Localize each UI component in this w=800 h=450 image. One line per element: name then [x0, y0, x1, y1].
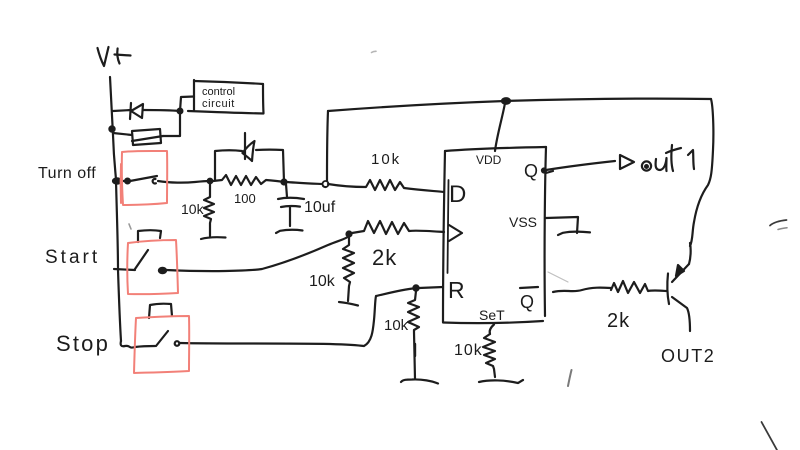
svg-text:VDD: VDD [476, 153, 502, 167]
svg-text:10k: 10k [371, 151, 401, 168]
svg-text:2k: 2k [372, 245, 397, 270]
svg-text:circuit: circuit [202, 98, 235, 110]
svg-text:10k: 10k [384, 317, 409, 334]
svg-text:R: R [448, 277, 465, 303]
svg-text:Stop: Stop [56, 331, 110, 356]
svg-text:10k: 10k [309, 273, 336, 290]
svg-text:D: D [449, 181, 466, 208]
svg-text:Start: Start [45, 247, 100, 268]
svg-text:Q: Q [524, 161, 538, 181]
svg-text:OUT2: OUT2 [661, 346, 715, 366]
svg-text:SeT: SeT [479, 307, 505, 323]
svg-text:VSS: VSS [509, 214, 537, 230]
svg-text:Turn off: Turn off [38, 165, 96, 182]
svg-text:100: 100 [234, 191, 256, 206]
svg-text:control: control [202, 86, 235, 98]
svg-text:2k: 2k [607, 310, 630, 332]
svg-text:10k: 10k [181, 201, 205, 217]
svg-text:10uf: 10uf [304, 199, 336, 216]
svg-text:10k: 10k [454, 342, 483, 359]
svg-text:Q: Q [520, 292, 534, 312]
